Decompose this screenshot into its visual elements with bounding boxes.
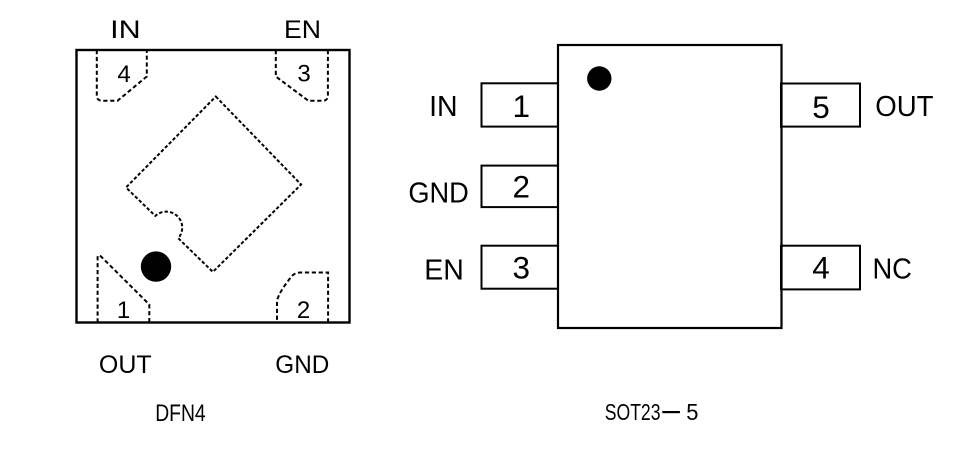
svg-text:IN: IN [110,16,141,44]
svg-text:SOT23: SOT23 [605,399,661,425]
package name SOT23-5 [605,399,699,425]
svg-text:IN: IN [429,91,458,123]
svg-text:1: 1 [513,88,531,124]
pin 1 lead (SOT23-5) [482,83,559,126]
svg-text:GND: GND [408,178,469,210]
pin 4 lead (SOT23-5) [781,246,860,290]
pin 1 indicator dot (DFN4) [141,251,171,281]
svg-text:3: 3 [513,249,531,285]
pin 3 lead (SOT23-5) [482,246,559,289]
svg-text:2: 2 [297,297,310,324]
svg-text:4: 4 [812,249,830,285]
svg-text:EN: EN [284,16,321,44]
pin 4 pad (DFN4 top-left, dashed) [97,50,147,101]
svg-text:2: 2 [513,168,531,204]
pin 1 indicator dot (SOT23-5) [587,66,611,90]
pin 1 pad (DFN4 bottom-left, dashed) [98,255,150,322]
svg-text:3: 3 [297,60,310,87]
svg-text:4: 4 [117,61,130,88]
pin 2 pad (DFN4 bottom-right, dashed) [277,273,328,323]
svg-text:5: 5 [686,399,698,425]
pin 2 lead (SOT23-5) [482,166,559,208]
SOT23-5 package body outline [558,45,782,328]
svg-text:OUT: OUT [99,351,152,379]
svg-text:NC: NC [872,254,912,286]
svg-text:1: 1 [117,297,130,324]
svg-text:GND: GND [275,351,329,379]
svg-text:5: 5 [812,89,830,125]
exposed pad (dashed diamond with semicircular notch) [126,97,301,272]
pin 5 lead (SOT23-5) [781,84,860,127]
DFN4 package body outline [77,50,350,323]
svg-text:DFN4: DFN4 [155,400,206,427]
svg-text:EN: EN [424,254,464,286]
pin 3 pad (DFN4 top-right, dashed) [276,50,328,101]
svg-text:OUT: OUT [875,91,933,123]
